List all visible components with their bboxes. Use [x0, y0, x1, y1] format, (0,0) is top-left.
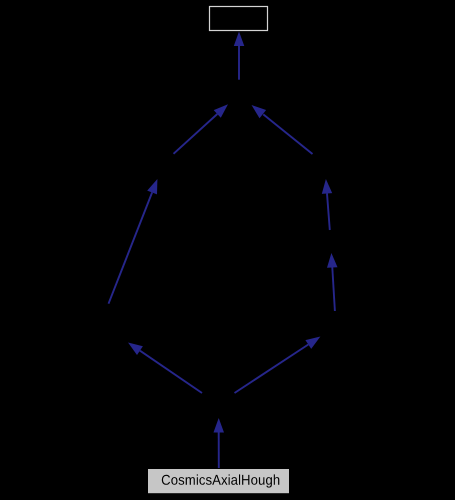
arrow D to B: [109, 179, 158, 304]
arrow B to A: [174, 104, 229, 154]
arrow F to E: [327, 253, 338, 311]
arrow G to F: [235, 337, 321, 394]
arrow G to D: [128, 343, 202, 394]
arrow E to C: [322, 179, 332, 230]
node: top box (empty, light-gray border): [210, 7, 268, 31]
node: CosmicsAxialHough box: [148, 469, 289, 493]
arrow bottom box to G: [214, 418, 225, 468]
arrow C to A: [252, 105, 313, 154]
arrow A to top box: [234, 32, 245, 80]
